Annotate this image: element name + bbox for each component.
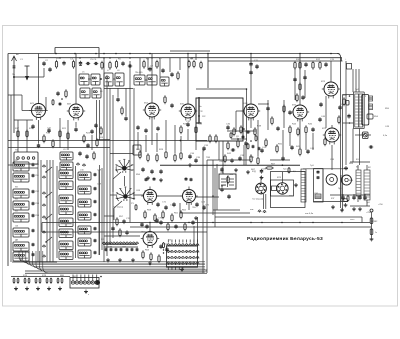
resistor R10 [294,61,296,70]
wire drop x170 [169,58,171,72]
wire x146 vert [145,135,147,152]
electrolytic C4 [79,61,82,66]
capacitor C22 [90,129,93,134]
resistor R38 [254,127,256,136]
label Пр [12,74,16,76]
ground Л6 [294,183,298,187]
wire drop x140 [139,58,141,75]
capacitor C77 [159,244,162,249]
wire x244 vert [243,145,245,165]
wire HT rail corner [337,54,341,62]
wire power x341 [340,175,342,202]
junction second rail [79,57,80,58]
label С86 [222,165,227,167]
wire x326 vert [325,96,327,128]
tube socket Л2 башм [256,183,267,194]
wire x284 vert [283,100,285,128]
resistor R32 [195,125,197,134]
label R32 [198,124,203,126]
coil box L2a [80,88,90,98]
wire mid vertical e [129,61,131,223]
label 6К3 [144,103,148,105]
junction HT rail [250,53,252,55]
padder C61 [94,213,97,217]
capacitor C25 [85,154,88,159]
wire power hor y210 [213,209,240,211]
label С71 [162,202,167,204]
wire x305 vert2 [304,70,306,98]
terminal +Г [370,209,373,212]
label С75 [205,205,210,207]
resistor R30 [174,153,176,162]
wire antenna link [14,68,44,77]
resistor R51 [324,137,326,146]
lightning arrester F1 [25,66,30,81]
label С59 [97,184,102,186]
label нак 6,3в [305,213,314,215]
cluster extra b [241,136,245,139]
label R38 [257,126,262,128]
label L13 [63,159,67,161]
wire dial link [125,176,144,195]
resistor R46 [305,125,307,134]
wire power x323 [322,169,324,202]
label 6П3 [321,81,326,83]
wire x295 vert2 [294,68,296,100]
wire bundle x102 [101,168,103,250]
resistor R29 [165,150,167,159]
coil L18 band КВ3 [13,213,29,222]
junction avc [180,140,182,142]
junction can [100,78,102,80]
resistor R85 [167,222,169,231]
switch contact [42,231,45,234]
tube Л11 6Ф6 [141,229,159,248]
wire rect bot [350,196,370,206]
wire drop x180 [179,58,181,70]
padder C62 [94,227,97,231]
wire shield edge b [99,100,101,140]
capacitor C28 [156,126,159,131]
resistor R75 [13,278,15,284]
label В2 [368,167,371,169]
capacitor C30 [150,169,153,174]
wire bandswitch vertical [37,160,39,262]
trimmer C50 [32,163,35,167]
coil L16 band КВ1 [13,189,29,198]
label R12 [316,59,321,61]
resistor R78 [28,278,30,284]
capacitor C48 [338,105,341,110]
capacitor C88 [227,194,230,199]
padder C60 [94,200,97,204]
label С87 [222,185,227,187]
wire Л1 grid left [22,95,32,111]
wire left edge vertical [7,54,9,267]
label R66 [229,174,234,176]
wire Л8 cathode drop [331,145,333,170]
label R55 [385,108,390,110]
label С5 С6 [90,59,97,61]
capacitor C71 [156,202,159,207]
label КВ [15,187,18,189]
transformer Тр2 winding R [359,94,363,127]
wire hor y160 r [270,159,290,161]
label R76 [23,275,28,277]
resistor R39 [227,141,229,150]
label R52 [343,95,348,97]
wire right vertical a [340,61,342,208]
semireg cluster [231,138,248,148]
coil L22 [59,170,73,179]
resistor R82 [283,104,285,113]
wire step anode [180,203,250,213]
coil L36 [78,250,91,258]
label R18 [29,128,34,130]
padder C59 [94,187,97,191]
wire dial left [110,194,116,196]
wire bank2 vertical b [75,166,77,258]
loudspeaker frame Гр1 [362,95,369,126]
bandswitch fan П1в [116,187,135,201]
resistor R5 [115,60,117,69]
label Л10 [183,191,188,193]
power row resistor [347,195,349,202]
wafer frame [167,246,198,267]
resistor R8 pair [188,60,195,69]
junction filament [341,222,342,223]
cluster extra g [258,147,261,151]
resistor R34 [215,134,217,143]
padder C63 [94,239,97,243]
resistor R67 [265,167,274,169]
label С41 [262,147,267,149]
ground power [344,203,348,207]
ground bottom row [25,287,29,291]
resistor R61 [171,213,173,222]
label Л12 [361,134,366,136]
label R31 [183,124,188,126]
ground right chain [370,237,374,241]
resistor R79 [35,278,37,284]
wire power hor y160 [207,159,251,161]
label С58 [97,170,102,172]
label С72 [170,205,175,207]
label Тр2 [355,89,359,91]
wire can links [88,79,147,80]
switch contact [42,245,45,248]
junction second rail [129,57,130,58]
junction filament [212,222,213,223]
junction conn [100,276,102,278]
label +250 [366,212,372,214]
wire x92 vert [91,135,93,150]
junction 132 [198,115,206,118]
coil L23 [59,181,73,190]
svg-text:Радиоприемник Беларусь-53: Радиоприемник Беларусь-53 [247,236,323,242]
capacitor C2 [48,67,51,72]
label КВ [15,199,18,201]
wire Л11 up [149,222,151,231]
resistor R81 [271,116,273,125]
resistor R20 [52,139,54,148]
switch contact [42,255,45,257]
label В1 [356,167,359,169]
junction filament [149,222,150,223]
wire thick ground stub [197,97,202,123]
pilot lamp box [363,132,369,139]
label 6К3 [30,103,34,105]
trimmer C57 [32,253,35,257]
capacitor C10 [161,68,164,73]
ground Л3b [159,178,163,182]
label ПЧ [135,72,143,74]
switch wafer П3 row4 [167,262,199,264]
capacitor C87 [220,187,223,192]
capacitor C81 [115,248,118,252]
junction filament [250,222,251,223]
resistor R81 [46,278,48,284]
wire x290 vert [289,134,291,146]
label Тр3 [310,165,314,167]
resistor R52 [343,97,345,106]
svg-text:з: з [88,294,89,296]
capacitor C109 [293,77,296,82]
capacitor C34 [188,154,191,159]
wire bank2 vertical a [56,166,58,258]
capacitor C97 [94,123,97,128]
ground Л3 [146,176,150,180]
wire top box left leg [54,48,56,54]
wire bandswitch vertical [40,160,42,262]
resistor R44 [289,125,291,134]
label С33 [204,145,209,147]
label R58 [147,210,152,212]
padder C58 [94,173,97,177]
wire sockets top [261,172,282,183]
tube Л4 6Х6 детектор [179,101,197,120]
tube Л7 6П3 оконечный [322,79,340,98]
junction second rail [191,57,192,58]
resistor R19 [43,134,45,143]
wire hor y165 [8,164,13,166]
label R8 [190,59,194,61]
wire power top [303,168,348,170]
svg-text:СВ: СВ [15,171,19,173]
resistor R90 [164,95,166,104]
capacitor C99 [369,145,374,148]
wire x126 vert [125,88,127,116]
label С69 [136,190,141,192]
junction second rail [103,57,104,58]
resistor R91 [299,82,301,91]
wire x258 vert [257,120,259,156]
resistor R89 [52,99,54,106]
wire mid vertical c [109,88,111,244]
capacitor C95 [276,126,279,131]
small box right top [347,64,352,70]
label сеть [350,219,355,221]
capacitor C23 [86,143,89,148]
capacitor C38 [231,148,236,151]
capacitor C117 [124,116,127,121]
capacitor C24 [78,151,81,156]
coil L21 band Т [13,252,29,261]
label С81 [122,247,127,249]
label П3б [168,251,173,253]
label R44 [292,124,297,126]
label осн [289,195,293,197]
wire y88.5 link [104,88,133,90]
ground Л5b [246,170,250,174]
resistor R59 [154,213,156,222]
resistor R21 [59,129,61,138]
wire bandswitch vertical [49,160,51,262]
trimmer C52 [32,190,35,194]
label С35 [196,157,201,159]
label Л9 [144,191,147,193]
wire x246.5 vert [246,89,248,141]
wire bank2 vertical c [98,170,100,255]
label ДВ [15,160,18,162]
label СВ [15,226,19,228]
capacitor C18 [31,124,34,129]
trimmer C53 [32,202,35,206]
box around socket2 [271,180,294,196]
power row caps [341,195,366,200]
label R61 [174,213,179,215]
junction HT rail [74,53,76,55]
label КЗГ [331,198,335,200]
resistor R93 [121,106,123,115]
speaker terminal b [369,104,373,110]
capacitor C41 [260,148,263,153]
wire Л7 anode drop [330,61,332,79]
label С76 [158,218,163,220]
wire filament bus b [42,222,370,224]
label L5 [82,72,85,74]
label L22 [61,167,65,169]
label С39 [240,155,245,157]
wire x313 vert [312,133,314,150]
capacitor C7 [121,61,124,66]
label С79 [108,247,113,249]
resistor R35 [180,151,182,160]
resistor R36 [233,127,235,136]
capacitor C9 [148,67,151,72]
coil L28 [59,241,73,250]
antenna W1 [12,56,17,133]
capacitor C78 [165,247,168,252]
resistor R47 [299,147,301,156]
capacitor C102 [174,224,177,229]
capacitor C6 [94,62,99,65]
big output box [271,172,306,208]
wire long bottom a [25,270,207,272]
capacitor C5 [86,62,91,65]
label 6П3 [277,177,282,179]
junction g1 [61,98,63,100]
coil L20 band Л [13,242,29,251]
label R67 [271,164,276,166]
svg-text:нак: нак [250,209,253,211]
coil can L10 [147,75,157,85]
coil L30 [78,172,91,180]
resistor R42 [224,154,226,163]
capacitor C98 [347,114,350,119]
resistor R57 [116,217,118,226]
wire power bottom [314,201,349,203]
label 6Ж8 [243,103,248,105]
wire wafer vertical [197,217,199,246]
label 0,5 [293,171,297,173]
resistor R45 [297,127,299,136]
transformer Тр2 winding L [355,94,359,127]
capacitor C76 [155,218,162,225]
switch arm b [45,192,52,198]
rectifier selenium a [356,170,361,196]
wire power vertical b [216,164,218,210]
label R67 [251,169,256,171]
capacitor C110 [303,75,306,80]
wire long y165 [160,164,300,166]
wire rail join x208 [207,54,209,89]
resistor R60 [162,210,164,219]
resistor R83 [100,126,102,135]
svg-text:С5 С6: С5 С6 [90,59,97,61]
coil box L13 [60,162,73,170]
ground row [106,258,135,262]
wire anode supply drop [250,54,252,102]
resistor R63 [142,250,144,259]
wire mid vertical a [103,58,105,262]
coil L29 [59,251,73,260]
wire Л5 grid [236,111,244,130]
coil can L9 [134,75,145,85]
wire rail segment y51 [170,50,210,52]
switch contact [42,204,45,207]
wire x353 top [352,69,354,92]
wire third rail right [208,60,343,62]
label С20 [47,128,52,130]
wire tube2 right y197 [196,196,219,198]
capacitor C113 [153,177,156,181]
contact het [76,163,85,167]
tube Л2 6А7 преобр [67,101,85,120]
capacitor C80 [110,248,113,252]
label ДВ [15,240,18,242]
label 6П3 [322,128,327,130]
label С48 [341,104,346,106]
trimmer C55 [32,229,35,233]
wire filament bus a [215,216,362,218]
resistor R27 [147,153,149,162]
switch arm a [45,167,52,173]
wire right vertical a2 [342,95,344,211]
junction HT rail [149,53,151,55]
capacitor C11 [249,62,252,67]
terminal circle [95,280,99,284]
switch wafer П3 row3 [167,256,199,258]
svg-text:6Ж8: 6Ж8 [243,103,248,105]
label R42 [227,153,232,155]
coil L15 band СВ [13,173,29,182]
wire bottom bus [11,276,70,278]
label С9 [150,66,154,68]
label R40 [250,157,255,159]
label R50 [278,144,283,146]
wire x356 top [355,69,357,92]
